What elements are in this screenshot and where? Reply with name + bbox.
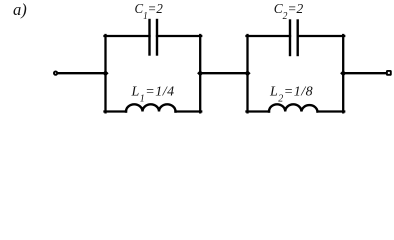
node A junction dot [102, 70, 108, 76]
capacitor C2 plates [289, 21, 291, 56]
node C junction dot [244, 70, 250, 76]
tank 1 left vertical wire [104, 35, 106, 112]
capacitor C1 plates [148, 20, 150, 55]
svg-text:C2=2: C2=2 [274, 1, 304, 22]
wire: node B to node C (between tanks) [200, 72, 248, 74]
wire: node D to right terminal [343, 72, 386, 74]
tank 2 left vertical wire [246, 35, 248, 112]
inductor L2 [269, 104, 318, 111]
tank 1 top wire left of C1 [105, 35, 150, 37]
tank 2 top wire right of C2 [298, 35, 345, 37]
tank 1 right vertical wire [199, 35, 201, 112]
node D junction dot [340, 70, 346, 76]
tank 2 bottom wire right of L2 [318, 110, 345, 112]
tank 2 right vertical wire [342, 35, 344, 112]
tank 2 bottom wire left of L2 [247, 110, 270, 112]
svg-text:L2=1/8: L2=1/8 [269, 85, 313, 105]
tank 2 top wire left of C2 [247, 35, 291, 37]
svg-text:C1=2: C1=2 [135, 1, 164, 22]
svg-text:а): а) [13, 0, 27, 19]
tank 1 bottom wire left of L1 [105, 110, 127, 112]
terminal T1 (left input) [54, 72, 57, 75]
svg-text:L1=1/4: L1=1/4 [131, 85, 175, 105]
tank 1 bottom wire right of L1 [176, 110, 202, 112]
wire: left terminal to node A [58, 72, 106, 74]
tank 1 top wire right of C1 [157, 35, 201, 37]
terminal T2 (right output) [387, 71, 391, 75]
inductor L1 [126, 104, 176, 111]
node B junction dot [197, 70, 203, 76]
